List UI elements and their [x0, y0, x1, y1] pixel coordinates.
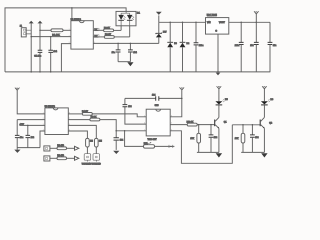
svg-text:D3: D3 [174, 43, 177, 45]
svg-text:R10 1K: R10 1K [187, 122, 194, 124]
svg-text:Q2: Q2 [269, 122, 273, 124]
wire U3 pin4 route [40, 131, 45, 148]
capacitor C11 [114, 131, 125, 150]
svg-text:220u: 220u [199, 45, 203, 47]
resistor R3 [104, 36, 114, 39]
wire U3 pin2 left [17, 119, 45, 121]
node [117, 43, 119, 45]
wire U2 gnd [217, 34, 219, 72]
pot RV1 chain [124, 130, 175, 148]
node [198, 124, 200, 126]
svg-text:104: 104 [255, 137, 259, 139]
ground triangle U2 [216, 73, 221, 76]
node [115, 130, 117, 132]
wire U4 right pin2 to Q1 base [170, 124, 187, 126]
pin tag U1 RX [93, 35, 104, 38]
resistor R4 [82, 113, 92, 116]
diode D4 [180, 22, 190, 72]
svg-text:7: 7 [144, 129, 145, 131]
node [182, 22, 184, 24]
wire VCC2 to R1 [40, 29, 51, 31]
wire LED box internal [121, 11, 130, 13]
svg-text:104: 104 [152, 94, 156, 96]
VCC arrow cell1 [217, 86, 222, 101]
capacitor C7 [250, 22, 259, 72]
net chain 2 [44, 155, 79, 161]
capacitor C4 [128, 43, 138, 61]
node [256, 22, 258, 24]
wire ground bus [5, 71, 270, 73]
wire C net [93, 42, 159, 44]
LED1 [215, 99, 228, 117]
svg-text:R3 1K: R3 1K [105, 34, 111, 36]
resistor R6 vertical [86, 138, 90, 147]
wire R1 to U1 pin1 [63, 29, 71, 31]
capacitor C9 [15, 120, 23, 148]
resistor R10 [187, 123, 197, 126]
wire cell1 gnd rail [197, 151, 219, 153]
svg-text:3: 3 [69, 42, 70, 44]
svg-text:104: 104 [53, 51, 57, 53]
ground arrow touch [113, 151, 119, 154]
svg-text:2: 2 [43, 118, 44, 120]
capacitor C1 electrolytic [34, 30, 42, 72]
resistor R5 [90, 118, 100, 121]
VCC arrow mid [170, 87, 184, 116]
svg-text:104: 104 [128, 106, 132, 108]
svg-text:D4: D4 [187, 43, 190, 45]
svg-text:R4 1K: R4 1K [82, 111, 88, 113]
node [181, 98, 183, 100]
svg-text:TRIG OUT: TRIG OUT [148, 139, 158, 141]
touch pad2 [93, 154, 100, 162]
regulator U2 [206, 18, 229, 34]
ground triangle cell2 [261, 153, 267, 157]
svg-text:104: 104 [120, 140, 124, 142]
wire to pad2 [95, 147, 97, 154]
wire LED1 to R2 net [120, 26, 122, 31]
IC U1 [71, 21, 93, 49]
node [71, 7, 73, 8]
capacitor C6 [235, 22, 244, 72]
svg-text:104: 104 [133, 52, 137, 54]
connector J1 [20, 26, 26, 37]
svg-text:555: 555 [155, 105, 159, 107]
svg-text:D6: D6 [271, 99, 274, 101]
wire R5 route to U4 [100, 120, 146, 131]
pin tag U1 TX [93, 28, 103, 31]
node [240, 22, 242, 24]
wire U3 right pin4 [68, 131, 87, 138]
node [252, 124, 254, 126]
wire cell2 gnd rail [241, 151, 264, 153]
svg-text:U3 EN8F2: U3 EN8F2 [45, 106, 56, 108]
svg-text:47u: 47u [273, 45, 276, 47]
wire caps gnd rail [17, 147, 40, 149]
svg-text:1M: 1M [99, 141, 102, 143]
svg-text:R9 470: R9 470 [57, 155, 64, 157]
LED box [116, 11, 136, 25]
svg-text:R5 1K: R5 1K [91, 117, 97, 119]
node [50, 36, 52, 38]
svg-text:DW: DW [163, 31, 166, 33]
node [30, 36, 32, 38]
capacitor C12 series [152, 94, 159, 100]
node [50, 71, 52, 73]
wire R10 to base [197, 124, 214, 126]
svg-text:2: 2 [144, 115, 145, 117]
wire R4 to U4 [92, 114, 146, 117]
svg-text:10K: 10K [190, 138, 194, 140]
power arrow VCC 1 [29, 21, 34, 72]
svg-text:TOUCH PAD TOUCH PAD: TOUCH PAD TOUCH PAD [82, 162, 102, 165]
supply arrow down mid [156, 12, 162, 23]
svg-text:C1 10u: C1 10u [34, 55, 42, 57]
capacitor C10 [26, 125, 35, 147]
transistor Q1 [215, 117, 228, 152]
svg-text:D5: D5 [225, 99, 228, 101]
svg-text:104: 104 [250, 45, 254, 47]
svg-text:10u: 10u [20, 137, 23, 139]
svg-text:R2 1K: R2 1K [104, 27, 110, 29]
wire input rail [159, 21, 206, 23]
node [217, 71, 219, 73]
svg-text:R8 470: R8 470 [57, 145, 64, 147]
wire cell2 base [232, 124, 260, 126]
wire U4 pin3 long route [170, 125, 232, 164]
svg-text:4: 4 [43, 130, 44, 132]
wire U1 pin2 net [31, 36, 71, 38]
capacitor C3 electrolytic [112, 43, 121, 61]
resistor R12 pulldown [235, 125, 245, 153]
svg-text:10K: 10K [235, 138, 239, 140]
node [242, 124, 244, 126]
svg-text:6: 6 [144, 123, 145, 125]
svg-text:VOUT: VOUT [219, 22, 226, 24]
svg-text:VIN: VIN [207, 22, 211, 24]
resistor R7 vertical [95, 138, 99, 147]
pin numbers U1 [43, 29, 172, 132]
node [169, 22, 171, 24]
diode D3 [167, 22, 177, 72]
wire top cap net [125, 97, 182, 99]
node [39, 30, 41, 32]
svg-text:U2 L7805: U2 L7805 [207, 15, 218, 17]
svg-text:10u: 10u [112, 52, 115, 54]
wire left return bus [5, 8, 126, 72]
svg-text:4.7K: 4.7K [20, 124, 25, 126]
wire U1 top riser [71, 8, 73, 21]
VCC arrow cell2 [262, 86, 267, 101]
LED2 [261, 99, 274, 117]
ground triangle mid [127, 62, 133, 66]
ground arrow left [14, 148, 20, 153]
svg-text:3: 3 [43, 124, 44, 126]
wire U4 pin2 left riser cap [123, 98, 147, 124]
resistor R11 pulldown [190, 125, 200, 153]
IC U3 [45, 108, 68, 135]
IC U4 555 [146, 109, 170, 136]
ground triangle cell1 [216, 153, 222, 157]
node [27, 125, 29, 127]
wire output rail [229, 21, 270, 23]
svg-text:U1 HT6P2: U1 HT6P2 [71, 19, 82, 21]
capacitor C13 [209, 125, 218, 153]
node [130, 43, 132, 45]
wire R3 to LED2 [114, 36, 129, 38]
VCC arrow top right [254, 11, 259, 22]
wire U1 pin3 gnd route [61, 44, 71, 72]
svg-text:2: 2 [69, 36, 70, 38]
LED DS1 [118, 13, 125, 26]
capacitor C14 [250, 125, 259, 153]
resistor R1 [51, 29, 63, 32]
zener DW [156, 22, 167, 43]
resistor R2 [104, 29, 114, 32]
wire U3 right pin1 [68, 113, 82, 115]
wire R2 to LED1 [114, 29, 122, 31]
wire U3 right pin2 [68, 119, 90, 121]
svg-text:1M: 1M [90, 141, 93, 143]
svg-text:1: 1 [69, 29, 70, 31]
node [195, 22, 197, 24]
svg-text:220u: 220u [235, 45, 239, 47]
capacitor C8 [268, 22, 277, 72]
wire U3 pin3 left [20, 124, 45, 126]
svg-text:1: 1 [43, 113, 44, 115]
svg-text:R1 10K: R1 10K [52, 34, 60, 36]
wire to pad1 [86, 147, 88, 154]
transistor Q2 [260, 117, 273, 152]
touch pad1 [84, 154, 91, 162]
node [39, 71, 41, 73]
wire cap bottoms [118, 61, 130, 63]
net chain 1 [44, 145, 79, 151]
svg-text:104: 104 [214, 137, 218, 139]
wire J1 pins to stem [26, 30, 31, 34]
wire U3 right pin3 [68, 125, 96, 138]
svg-text:D1: D1 [137, 12, 141, 14]
capacitor C2 [48, 37, 57, 72]
VCC arrow bottom left [15, 88, 45, 114]
LED DS2 [127, 13, 134, 26]
capacitor C5 [194, 22, 204, 72]
power arrow VCC 2 [38, 21, 43, 31]
node [30, 71, 32, 73]
svg-text:Q1: Q1 [224, 121, 228, 123]
node [210, 124, 212, 126]
wire LED2 to R3 net [129, 26, 131, 37]
svg-text:104: 104 [31, 137, 35, 139]
